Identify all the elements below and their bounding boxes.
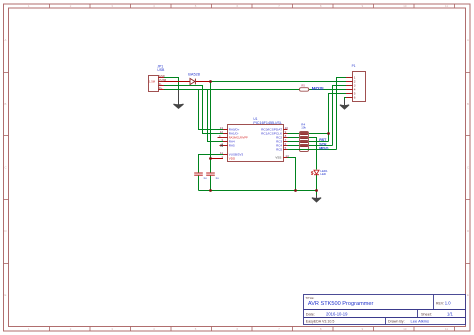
svg-text:2016-10-19: 2016-10-19 [326, 312, 348, 317]
svg-text:D: D [467, 229, 469, 233]
svg-text:MISO: MISO [319, 146, 328, 150]
svg-text:B: B [5, 102, 7, 106]
svg-text:Sheet:: Sheet: [421, 313, 432, 317]
svg-text:VUSB: VUSB [159, 78, 167, 82]
svg-text:6: 6 [354, 96, 356, 100]
svg-text:11: 11 [445, 327, 448, 331]
svg-text:E: E [467, 293, 469, 297]
svg-text:D+: D+ [159, 86, 163, 90]
svg-text:14: 14 [285, 154, 289, 158]
svg-text:BA528: BA528 [188, 73, 200, 77]
svg-text:C: C [5, 166, 7, 170]
svg-text:PIC16F1455-I/SL: PIC16F1455-I/SL [253, 121, 282, 125]
svg-text:AVR STK500 Programmer: AVR STK500 Programmer [308, 301, 374, 307]
svg-text:P1: P1 [352, 64, 356, 68]
svg-text:REV:: REV: [436, 301, 444, 305]
svg-text:10: 10 [403, 327, 407, 331]
svg-text:Date:: Date: [306, 313, 315, 317]
svg-text:LED: LED [320, 172, 326, 176]
svg-text:D-: D- [159, 82, 162, 86]
svg-text:C: C [467, 166, 469, 170]
svg-text:R5: R5 [301, 83, 305, 87]
svg-text:10: 10 [403, 4, 407, 8]
svg-text:RA5: RA5 [229, 144, 235, 148]
svg-text:11: 11 [445, 4, 448, 8]
svg-text:1.0: 1.0 [445, 301, 451, 306]
svg-text:VDD: VDD [229, 157, 236, 161]
svg-text:MOSI: MOSI [312, 86, 324, 91]
svg-text:VSS: VSS [275, 156, 281, 160]
svg-text:RC5: RC5 [276, 148, 282, 152]
svg-text:GND: GND [159, 74, 165, 78]
svg-text:A: A [467, 38, 469, 42]
svg-text:B: B [467, 102, 469, 106]
svg-text:1/1: 1/1 [447, 312, 453, 317]
svg-text:10k: 10k [301, 126, 306, 130]
svg-text:1.5M: 1.5M [149, 80, 156, 84]
svg-text:E: E [5, 293, 7, 297]
svg-text:Drawn By:: Drawn By: [388, 320, 405, 324]
svg-text:USB: USB [157, 68, 165, 72]
svg-text:D: D [5, 229, 7, 233]
svg-text:TITLE:: TITLE: [305, 296, 314, 300]
svg-text:A: A [5, 38, 7, 42]
svg-text:Lee Atkins: Lee Atkins [411, 319, 429, 324]
svg-text:1u: 1u [203, 176, 207, 180]
svg-text:EasyEDA V3.10.5: EasyEDA V3.10.5 [306, 320, 335, 324]
svg-text:1u: 1u [215, 176, 219, 180]
